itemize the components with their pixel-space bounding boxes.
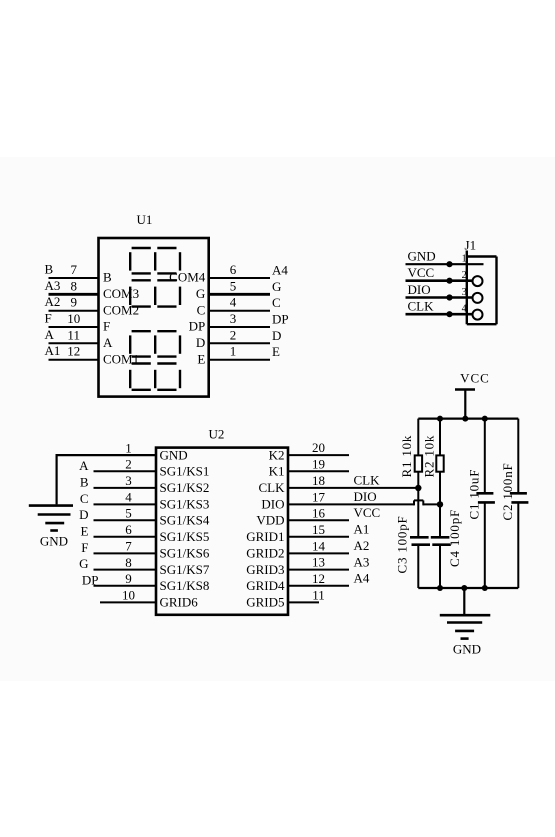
svg-text:GND: GND: [40, 534, 68, 549]
wire U2 pin 5: [94, 519, 157, 521]
junction dot rail/R2: [437, 416, 443, 422]
svg-text:C2 100nF: C2 100nF: [500, 462, 515, 520]
svg-text:E: E: [81, 523, 89, 538]
svg-text:U2: U2: [209, 427, 225, 442]
svg-text:7: 7: [125, 539, 132, 554]
svg-text:GRID2: GRID2: [246, 546, 284, 561]
svg-text:DIO: DIO: [408, 282, 431, 297]
wire VCC top rail: [418, 418, 518, 420]
svg-text:DP: DP: [82, 572, 99, 587]
svg-text:B: B: [45, 262, 54, 277]
svg-text:C1 10uF: C1 10uF: [467, 469, 482, 520]
svg-text:7: 7: [70, 262, 77, 277]
svg-text:GRID1: GRID1: [246, 529, 284, 544]
U1 pin 7 labels (B / 7 / B): [45, 262, 113, 285]
svg-text:J1: J1: [465, 238, 477, 253]
wire U1 pin 5 (G): [209, 293, 270, 296]
U1 pin 12 labels (A1 / 12 / COM1): [45, 343, 140, 366]
wire U2 pin 20: [288, 454, 349, 456]
wire J1 pin 2 (VCC): [406, 279, 473, 282]
svg-text:G: G: [196, 286, 205, 301]
U1 pin 2 labels (D / 2 / D): [196, 327, 281, 350]
U1 pin 4 labels (C / 4 / C): [197, 295, 281, 318]
svg-text:A: A: [79, 458, 89, 473]
wire U2 pin 1 (GND) to ground: [57, 454, 156, 504]
svg-text:B: B: [80, 474, 89, 489]
wire U2 pin 6: [94, 536, 157, 538]
capacitor C2: [510, 419, 529, 588]
wire U1 pin 2 (D): [209, 342, 270, 344]
svg-text:12: 12: [312, 571, 325, 586]
wire J1 pin 3 (DIO): [406, 296, 473, 299]
svg-text:10: 10: [122, 588, 135, 603]
svg-text:A1: A1: [354, 522, 370, 537]
wire U2 pin 14: [288, 552, 349, 554]
svg-text:E: E: [197, 351, 205, 366]
svg-text:SG1/KS2: SG1/KS2: [160, 480, 210, 495]
svg-text:A3: A3: [45, 278, 61, 293]
junction dot on J1 GND wire: [446, 261, 452, 267]
wire U2 pin 11: [288, 601, 319, 603]
capacitor C1: [476, 419, 495, 588]
svg-text:12: 12: [67, 344, 80, 359]
svg-text:GRID3: GRID3: [246, 562, 284, 577]
wire U2 pin 12: [288, 585, 349, 587]
svg-text:3: 3: [230, 311, 237, 326]
svg-text:A3: A3: [354, 554, 370, 569]
svg-text:GRID4: GRID4: [246, 578, 285, 593]
U1 pin 3 labels (DP / 3 / DP): [189, 311, 289, 334]
svg-text:DP: DP: [272, 312, 289, 327]
U1 pin 6 labels (COM4 / 6 / A4): [169, 262, 288, 285]
svg-text:8: 8: [125, 555, 132, 570]
svg-text:GND: GND: [160, 447, 188, 462]
svg-text:VDD: VDD: [256, 513, 284, 528]
svg-text:C: C: [197, 302, 206, 317]
svg-text:D: D: [79, 507, 88, 522]
U1 pin 11 labels (A / 11 / A): [45, 327, 114, 350]
svg-text:R2 10k: R2 10k: [421, 435, 436, 478]
svg-text:CLK: CLK: [408, 299, 435, 314]
junction dot on J1 VCC wire: [446, 278, 452, 284]
svg-text:C: C: [80, 491, 89, 506]
svg-text:COM3: COM3: [103, 286, 139, 301]
svg-text:SG1/KS8: SG1/KS8: [160, 578, 210, 593]
svg-text:10: 10: [67, 311, 80, 326]
svg-text:2: 2: [125, 457, 132, 472]
IC U1 (7-segment display) body: [99, 238, 209, 397]
svg-text:3: 3: [462, 287, 467, 298]
svg-text:2: 2: [230, 327, 237, 342]
svg-text:B: B: [103, 270, 112, 285]
connector J1 body: [467, 251, 497, 325]
svg-text:3: 3: [125, 473, 132, 488]
svg-text:C3 100pF: C3 100pF: [395, 515, 410, 573]
svg-text:E: E: [272, 344, 280, 359]
U1 pin 9 labels (A2 / 9 / COM2): [45, 294, 140, 317]
wire U1 pin 3 (DP): [209, 326, 270, 328]
wire U1 pin 12 (A1): [49, 359, 99, 361]
junction dot on J1 CLK wire: [446, 311, 452, 317]
svg-text:4: 4: [125, 490, 132, 505]
svg-text:C4 100pF: C4 100pF: [447, 509, 462, 567]
svg-text:1: 1: [462, 254, 467, 265]
svg-text:9: 9: [70, 295, 77, 310]
svg-text:U1: U1: [137, 212, 153, 227]
svg-text:R1 10k: R1 10k: [399, 435, 414, 478]
svg-text:G: G: [79, 556, 88, 571]
svg-text:9: 9: [125, 571, 132, 586]
svg-text:5: 5: [230, 278, 237, 293]
svg-text:1: 1: [125, 440, 132, 455]
svg-text:A2: A2: [354, 538, 370, 553]
svg-text:F: F: [81, 540, 88, 555]
wire U2 pin 2: [94, 470, 157, 472]
svg-text:SG1/KS5: SG1/KS5: [160, 529, 210, 544]
svg-text:GRID6: GRID6: [160, 595, 199, 610]
svg-text:4: 4: [462, 304, 467, 315]
svg-text:11: 11: [67, 327, 80, 342]
junction dot rail/GND stem: [461, 585, 467, 591]
svg-text:VCC: VCC: [354, 505, 381, 520]
J1 pin 3 socket circle: [473, 293, 483, 303]
wire U2 pin 13: [288, 569, 349, 571]
U1 upper seven-segment digits graphic: [130, 248, 180, 307]
svg-text:SG1/KS7: SG1/KS7: [160, 562, 210, 577]
svg-text:D: D: [272, 328, 281, 343]
VCC power symbol: [455, 390, 475, 419]
junction dot DIO/R2/C4 node: [437, 501, 443, 507]
J1 pin 2 socket circle: [473, 276, 483, 286]
svg-text:6: 6: [230, 262, 237, 277]
svg-text:20: 20: [312, 440, 325, 455]
U1 lower seven-segment digits graphic: [130, 331, 180, 390]
svg-text:GND: GND: [408, 249, 436, 264]
wire U2 pin 18: [288, 487, 418, 489]
svg-text:SG1/KS6: SG1/KS6: [160, 546, 210, 561]
capacitor C4: [431, 504, 451, 588]
svg-text:COM2: COM2: [103, 302, 139, 317]
svg-text:2: 2: [462, 270, 467, 281]
svg-text:G: G: [272, 279, 281, 294]
svg-text:A: A: [45, 327, 55, 342]
U1 pin 1 labels (E / 1 / E): [197, 344, 280, 367]
junction dot rail/C1: [482, 416, 488, 422]
U1 pin 8 labels (A3 / 8 / COM3): [45, 278, 140, 301]
svg-text:16: 16: [312, 505, 326, 520]
junction dot on J1 DIO wire: [446, 294, 452, 300]
wire U1 pin 9 (A2): [49, 310, 99, 312]
svg-text:A4: A4: [354, 571, 370, 586]
svg-text:17: 17: [312, 489, 326, 504]
svg-text:A2: A2: [45, 294, 61, 309]
wire U2 pin 4: [94, 503, 157, 505]
svg-text:6: 6: [125, 522, 132, 537]
wire U2 pin 19: [288, 470, 349, 472]
svg-text:A1: A1: [45, 343, 61, 358]
svg-text:SG1/KS1: SG1/KS1: [160, 464, 210, 479]
wire U2 pin 16: [288, 519, 349, 521]
svg-text:C: C: [272, 295, 281, 310]
wire U1 pin 1 (E): [209, 359, 270, 361]
svg-text:F: F: [45, 311, 52, 326]
svg-text:GND: GND: [453, 642, 481, 657]
svg-text:SG1/KS4: SG1/KS4: [160, 513, 210, 528]
capacitor C3: [410, 488, 430, 588]
svg-text:K1: K1: [269, 464, 285, 479]
junction dot CLK/R1/C3 node: [415, 485, 421, 491]
wire U2 pin 10: [100, 601, 156, 603]
svg-text:GRID5: GRID5: [246, 595, 284, 610]
svg-text:4: 4: [230, 295, 237, 310]
wire U1 pin 8 (A3): [49, 293, 99, 296]
svg-text:A4: A4: [272, 263, 288, 278]
wire U2 pin 8: [94, 569, 157, 571]
svg-text:VCC: VCC: [460, 371, 490, 386]
junction dot rail/C4: [437, 585, 443, 591]
svg-text:DIO: DIO: [261, 497, 284, 512]
ground symbol (right): [440, 588, 491, 639]
wire U1 pin 4 (C): [209, 310, 270, 312]
svg-text:1: 1: [230, 344, 237, 359]
wire U2 pin 17: [288, 500, 440, 505]
svg-text:8: 8: [70, 278, 77, 293]
svg-text:14: 14: [312, 538, 326, 553]
wire U2 pin 15: [288, 536, 349, 538]
svg-text:COM4: COM4: [169, 270, 206, 285]
IC U2 (display driver) body: [156, 448, 288, 615]
svg-text:15: 15: [312, 522, 325, 537]
ground symbol (left, U2 pin 1): [29, 506, 73, 531]
svg-text:DIO: DIO: [354, 489, 377, 504]
svg-text:K2: K2: [269, 447, 285, 462]
svg-text:CLK: CLK: [354, 473, 381, 488]
svg-text:DP: DP: [189, 319, 206, 334]
wire ground bottom rail: [418, 587, 518, 589]
U1 pin 5 labels (G / 5 / G): [196, 278, 281, 301]
svg-text:F: F: [103, 319, 110, 334]
svg-text:18: 18: [312, 473, 325, 488]
wire U2 pin 3: [94, 487, 157, 489]
svg-text:13: 13: [312, 555, 325, 570]
svg-text:A: A: [103, 335, 113, 350]
wire U1 pin 10 (F): [49, 326, 99, 328]
U1 pin 10 labels (F / 10 / F): [45, 311, 111, 334]
wire J1 pin 4 (CLK): [406, 313, 473, 316]
wire J1 pin 1 (GND): [406, 263, 484, 265]
wire U1 pin 11 (A): [49, 342, 99, 344]
svg-text:SG1/KS3: SG1/KS3: [160, 497, 210, 512]
wire U1 pin 7 (B): [49, 277, 99, 279]
junction dot rail/C1: [482, 585, 488, 591]
svg-text:11: 11: [312, 587, 325, 602]
svg-text:VCC: VCC: [408, 265, 435, 280]
svg-text:D: D: [196, 335, 205, 350]
svg-text:5: 5: [125, 506, 132, 521]
resistor R1: [415, 419, 422, 488]
svg-text:CLK: CLK: [259, 480, 286, 495]
svg-text:COM1: COM1: [103, 351, 139, 366]
J1 pin 4 socket circle: [473, 310, 483, 320]
resistor R2: [436, 419, 443, 505]
junction dot rail/VCC stem: [462, 416, 468, 422]
wire U2 pin 9: [94, 585, 157, 587]
svg-text:19: 19: [312, 456, 325, 471]
wire U2 pin 7: [94, 552, 157, 554]
wire U1 pin 6 (A4): [209, 277, 270, 279]
